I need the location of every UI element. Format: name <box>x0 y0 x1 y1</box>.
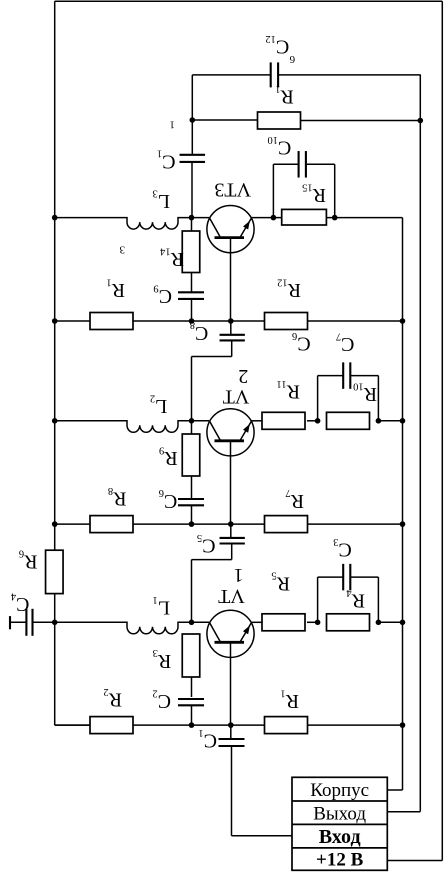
svg-text:3: 3 <box>119 244 125 256</box>
svg-text:1: 1 <box>170 118 176 130</box>
svg-text:Корпус: Корпус <box>310 780 369 801</box>
svg-text:Вход: Вход <box>319 826 361 848</box>
svg-text:VT: VT <box>218 585 245 607</box>
svg-text:Выход: Выход <box>313 803 366 824</box>
svg-text:2: 2 <box>238 365 248 387</box>
svg-text:VT3: VT3 <box>214 179 251 201</box>
svg-text:1: 1 <box>234 564 244 586</box>
svg-text:VT: VT <box>223 386 250 408</box>
svg-text:+12 В: +12 В <box>316 850 364 871</box>
svg-text:6: 6 <box>289 53 295 65</box>
